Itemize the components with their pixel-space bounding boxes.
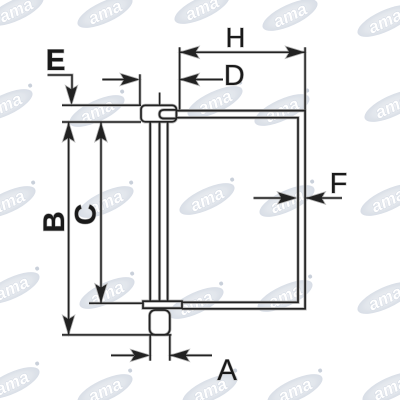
extension line tip bottom xyxy=(62,334,172,336)
dimension line H xyxy=(180,51,306,53)
arrowhead D left xyxy=(180,74,199,85)
centerline stub above pin head xyxy=(159,93,161,106)
dimension line D xyxy=(180,79,223,81)
dimension tail A left xyxy=(111,354,134,356)
arrowhead F left xyxy=(278,192,297,203)
square ring handle inner contour xyxy=(176,118,298,303)
extension line tip left xyxy=(149,335,151,361)
ring wire end inside pin head xyxy=(159,110,177,119)
svg-text:D: D xyxy=(224,60,245,92)
arrowhead F right xyxy=(306,192,325,203)
arrowhead A left xyxy=(131,350,150,361)
arrowhead A right xyxy=(170,350,189,361)
arrowhead B top xyxy=(63,123,74,142)
extension line head top xyxy=(62,104,141,106)
dimension line B xyxy=(68,122,70,335)
dimension E leader line xyxy=(48,75,73,92)
extension line bar top xyxy=(89,302,143,304)
arrowhead D right xyxy=(121,74,140,85)
svg-text:E: E xyxy=(46,44,66,77)
arrowhead H left xyxy=(180,47,199,58)
pin tip xyxy=(150,310,170,335)
label C xyxy=(70,204,103,225)
pin head xyxy=(141,105,176,122)
ring wire bar in front of shaft xyxy=(143,301,182,308)
square ring handle outer contour xyxy=(176,111,305,309)
label A xyxy=(217,354,237,387)
pin shaft xyxy=(150,122,167,301)
arrowhead C top xyxy=(95,123,106,142)
extension line head bottom xyxy=(62,121,141,123)
svg-text:B: B xyxy=(38,211,71,232)
extension line tip right xyxy=(169,335,171,361)
dimension line C xyxy=(100,122,102,303)
svg-text:C: C xyxy=(70,204,103,225)
arrowhead H right xyxy=(286,47,305,58)
label B xyxy=(38,211,71,232)
extension line head left xyxy=(139,74,141,104)
dimension tail F left xyxy=(254,197,283,199)
arrowhead C bottom xyxy=(95,284,106,303)
dimension tail A right xyxy=(170,354,212,356)
label E xyxy=(46,44,66,77)
svg-text:A: A xyxy=(217,354,237,387)
dimension tail D left xyxy=(102,79,126,81)
dimension tail F right xyxy=(306,197,342,199)
svg-text:H: H xyxy=(226,22,246,53)
label D xyxy=(224,60,245,92)
arrowhead E down xyxy=(66,86,77,105)
label H xyxy=(226,22,246,53)
label F xyxy=(330,168,348,200)
svg-text:F: F xyxy=(330,168,348,200)
extension line H right xyxy=(304,47,306,109)
extension line H left xyxy=(179,47,181,109)
arrowhead B bottom xyxy=(63,316,74,335)
